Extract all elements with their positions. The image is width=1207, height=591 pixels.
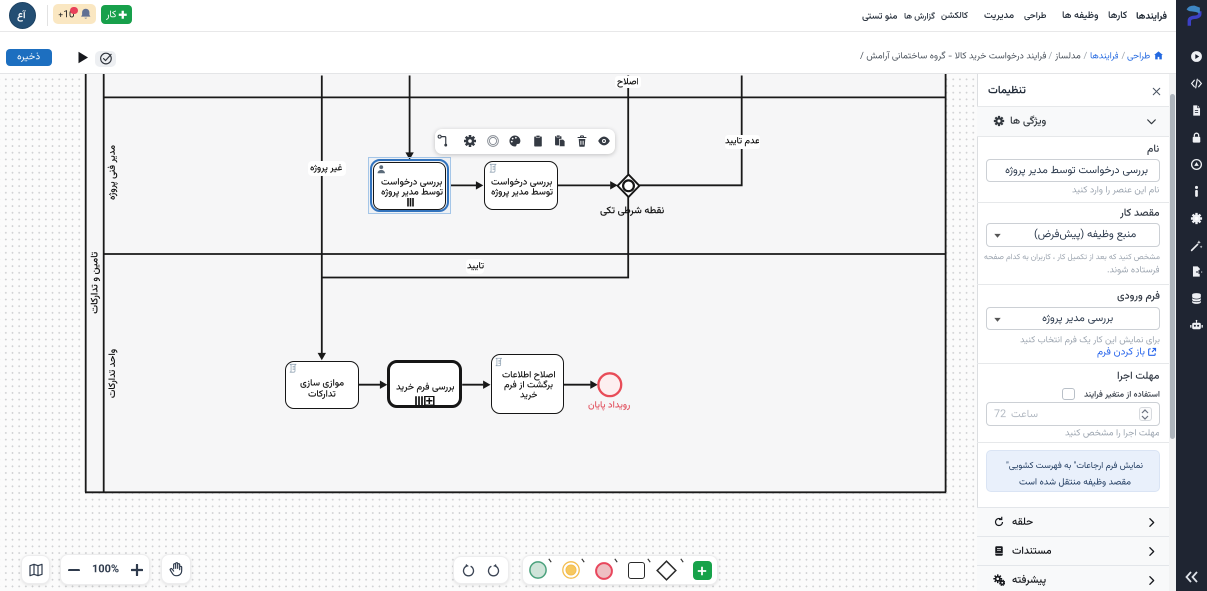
rail icon run <box>1190 50 1203 63</box>
checkbox استفاده از متغیر فرایند <box>1084 388 1160 401</box>
field نام <box>1147 141 1159 157</box>
selection outline of selected task <box>368 157 450 214</box>
label عدم تایید <box>725 135 761 150</box>
save button <box>6 49 52 67</box>
hand tool button <box>161 554 191 584</box>
breadcrumb path <box>1153 50 1164 61</box>
selected user task: blue focus ring <box>370 159 448 212</box>
label تایید <box>466 259 485 275</box>
validate button <box>95 51 116 67</box>
section ویژگی ها <box>977 107 1169 136</box>
script task موازی سازی تدارکات <box>285 361 359 409</box>
destination select <box>986 223 1160 247</box>
open form link <box>1147 347 1157 357</box>
name input <box>986 159 1160 183</box>
pool fill <box>85 74 946 493</box>
user task بررسی درخواست توسط مدیر پروژه <box>373 162 446 210</box>
multi-instance marker <box>407 198 414 207</box>
end event shape <box>595 562 613 580</box>
gateway shape <box>656 560 677 581</box>
field فرم ورودی <box>1117 288 1160 304</box>
subprocess task بررسی فرم خرید (thick border) <box>387 360 462 408</box>
right dark rail <box>1176 0 1207 591</box>
intermediate event shape <box>562 561 580 579</box>
scrollbar <box>1169 74 1176 591</box>
new task button <box>101 5 132 24</box>
accordion rows <box>977 507 1169 536</box>
undo redo group <box>453 556 509 584</box>
field مقصد کار <box>1120 205 1160 221</box>
canvas background with dot grid <box>0 74 977 591</box>
run play icon <box>77 51 89 64</box>
settings panel <box>977 74 1176 591</box>
start event shape <box>529 561 547 579</box>
hours input (disabled) <box>986 402 1160 426</box>
inclusive gateway <box>616 173 641 199</box>
number spinner <box>1139 407 1152 422</box>
label غیر پروژه <box>308 161 346 176</box>
markers ||| and + <box>415 396 435 406</box>
label اصلاح <box>615 76 641 88</box>
task shape <box>628 562 645 579</box>
shape palette <box>522 555 719 585</box>
gateway label <box>600 203 664 219</box>
bottom-left: lane tool button <box>21 555 50 584</box>
lane 1 title <box>105 145 120 200</box>
notification chip <box>53 4 97 24</box>
top navbar <box>0 0 1176 32</box>
zoom pill <box>60 554 151 585</box>
avatar <box>9 2 36 29</box>
script task اصلاح اطلاعات برگشت از فرم خرید <box>491 354 565 414</box>
top menu <box>1136 9 1167 24</box>
panel header تنظیمات <box>988 82 1026 99</box>
field مهلت اجرا <box>1117 368 1159 384</box>
script task بررسی درخواست توسط مدیر پروژه (2nd) <box>484 161 559 210</box>
form select <box>986 307 1160 331</box>
pool title <box>87 252 103 314</box>
add element button <box>693 561 712 580</box>
lane 2 title <box>105 348 120 397</box>
dropdown ticks <box>548 558 552 563</box>
collapse chevrons <box>1184 570 1200 584</box>
end event رویداد پایان <box>597 372 623 398</box>
context pad toolbar <box>435 129 615 154</box>
breadcrumb bar <box>0 32 1176 74</box>
logo <box>1178 3 1206 28</box>
info alert <box>986 450 1160 492</box>
red badge <box>70 7 77 14</box>
